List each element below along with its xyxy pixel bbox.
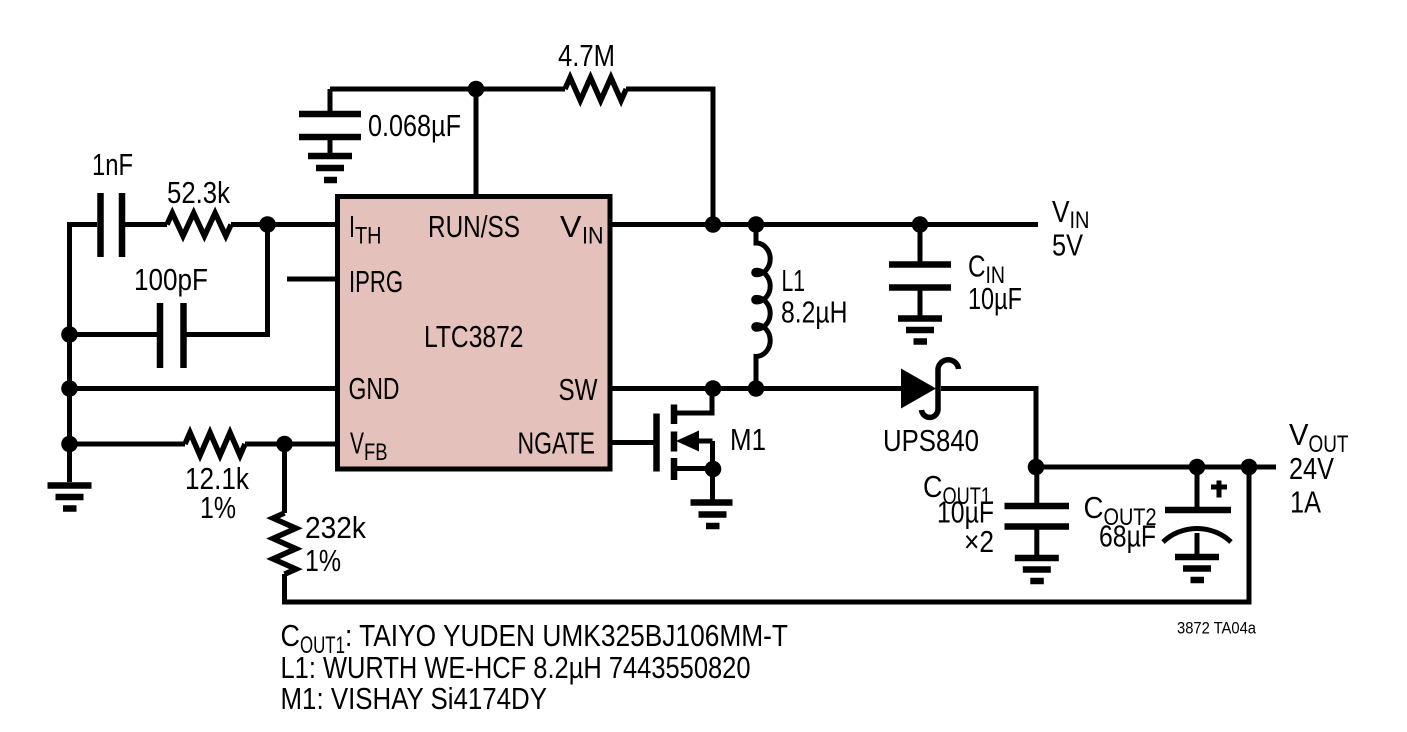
capacitor CIN plates [889, 265, 951, 288]
wire 232k down to bottom rail [282, 574, 287, 602]
wire 12.1k to VFB pin [245, 442, 337, 447]
svg-text:UPS840: UPS840 [883, 423, 979, 458]
wire diode cathode with corner down to VOUT rail [941, 389, 1036, 468]
inductor L1 [754, 225, 771, 389]
wire VIN rail from IC to VIN terminal [610, 222, 1038, 227]
capacitor 1nF plates [101, 193, 123, 257]
transistor M1 drain connection [677, 389, 712, 416]
node M1 drain / SW rail [705, 380, 722, 397]
capacitor CIN stub top [918, 225, 923, 262]
svg-text:SW: SW [559, 372, 599, 407]
svg-text:M1: M1 [730, 422, 766, 457]
svg-text:5V: 5V [1052, 228, 1083, 263]
wire VFB rail left segment [70, 442, 186, 447]
svg-text:LTC3872: LTC3872 [424, 319, 524, 354]
resistor 52.3k [167, 213, 231, 236]
svg-text:L1: L1 [782, 263, 806, 298]
capacitor COUT2 stub top [1195, 467, 1200, 507]
svg-text:0.068µF: 0.068µF [368, 108, 461, 143]
svg-text:RUN/SS: RUN/SS [428, 209, 520, 244]
op-amp U1 IC LTC3872 box [338, 197, 611, 470]
svg-text:24V: 24V [1289, 451, 1334, 486]
svg-text:10µF: 10µF [968, 281, 1022, 316]
wire VOUT rail [1036, 465, 1276, 470]
svg-text:M1: VISHAY Si4174DY: M1: VISHAY Si4174DY [281, 681, 548, 716]
wire 1nF left with corner down left rail [70, 225, 98, 483]
capacitor COUT2 curved plate [1163, 528, 1231, 542]
ground at COUT1 [1015, 558, 1059, 581]
node M1 source [705, 461, 722, 478]
svg-text:×2: ×2 [964, 524, 994, 559]
node ITH junction [259, 216, 276, 233]
node GND / left rail [61, 380, 78, 397]
ground at 0.068uF [308, 156, 352, 180]
svg-text:3872 TA04a: 3872 TA04a [1177, 619, 1256, 638]
wire 52.3k to ITH pin [231, 222, 337, 227]
svg-text:1nF: 1nF [92, 147, 133, 182]
capacitor C 0.068uF stub bottom [328, 140, 333, 153]
capacitor 100pF plates [160, 303, 184, 368]
node VFB / left rail [61, 436, 78, 453]
svg-text:4.7M: 4.7M [558, 38, 615, 73]
node junction top rail / RUN-SS [468, 81, 485, 98]
capacitor C 0.068uF stub top [328, 89, 333, 111]
wire SW rail from IC to diode [610, 386, 901, 391]
transistor Q1 M1 gate wire from NGATE [610, 440, 656, 445]
resistor 4.7M [565, 78, 626, 101]
wire top rail left segment [330, 87, 565, 92]
svg-text:52.3k: 52.3k [167, 175, 230, 210]
wire VFB junction down to 232k [282, 444, 287, 513]
capacitor COUT1 stub bottom [1034, 530, 1039, 556]
svg-text:NGATE: NGATE [518, 426, 596, 461]
transistor M1 body arrow [676, 431, 699, 452]
node L1 bottom / SW rail [748, 380, 765, 397]
capacitor COUT2 stub bottom [1195, 533, 1200, 554]
diode UPS840 schottky cathode bar [922, 360, 959, 418]
svg-text:1%: 1% [200, 490, 236, 525]
diode UPS840 anode triangle [901, 369, 936, 409]
svg-text:100pF: 100pF [134, 262, 208, 297]
ground at COUT2 [1175, 557, 1219, 580]
transistor M1 gate bar [653, 414, 660, 472]
node top-rail / VIN rail [705, 216, 722, 233]
wire ITH junction down to 100pF right plate [187, 225, 268, 335]
capacitor COUT1 plates [1005, 506, 1070, 527]
capacitor CIN stub bottom [918, 291, 923, 316]
wire top rail right segment with corner down to VIN rail [626, 89, 713, 225]
wire GND pin to left rail [70, 386, 338, 391]
svg-text:232k: 232k [305, 510, 366, 545]
resistor 12.1k [185, 433, 245, 456]
resistor 232k [273, 513, 296, 574]
ground at CIN [898, 319, 942, 342]
node COUT1 / VOUT rail [1028, 459, 1045, 476]
capacitor COUT1 stub top [1034, 467, 1039, 503]
ground at left rail [48, 486, 92, 509]
svg-text:1A: 1A [1290, 485, 1321, 520]
wire 100pF left plate to left rail [70, 332, 158, 337]
capacitor COUT2 positive plate [1165, 507, 1231, 514]
wire bottom feedback rail with corner up to VOUT rail [282, 467, 1249, 602]
pin wire IPRG [287, 277, 337, 282]
node COUT2 / VOUT rail [1189, 459, 1206, 476]
node feedback rail / VOUT rail [1241, 459, 1258, 476]
ground at M1 [691, 503, 733, 527]
svg-text:GND: GND [349, 371, 400, 406]
node L1 top / VIN rail [748, 216, 765, 233]
svg-text:8.2µH: 8.2µH [781, 295, 848, 330]
svg-text:IPRG: IPRG [349, 264, 403, 299]
transistor M1 source connection [677, 466, 713, 471]
node VFB / 232k junction [276, 436, 293, 453]
node 100pF / left rail [61, 326, 78, 343]
capacitor C 0.068uF plates [299, 114, 361, 137]
node CIN / VIN rail [912, 216, 929, 233]
svg-text:68µF: 68µF [1099, 519, 1156, 554]
transistor M1 channel segments [671, 405, 678, 481]
wire RUN/SS stub [474, 89, 479, 196]
capacitor COUT2 plus sign [1211, 481, 1227, 498]
transistor M1 body wire [697, 441, 713, 500]
svg-text:L1: WURTH WE-HCF 8.2µH 7443550: L1: WURTH WE-HCF 8.2µH 7443550820 [281, 650, 751, 685]
svg-text:1%: 1% [305, 543, 341, 578]
wire 1nF to 52.3k [125, 222, 167, 227]
